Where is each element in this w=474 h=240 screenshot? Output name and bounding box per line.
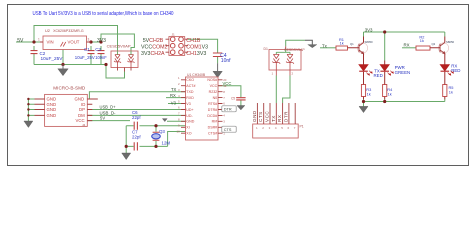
- svg-text:XO: XO: [186, 132, 191, 136]
- svg-text:ACT#: ACT#: [186, 84, 195, 88]
- svg-text:J1: J1: [172, 33, 176, 37]
- svg-text:P1: P1: [300, 124, 304, 128]
- svg-text:CTS: CTS: [258, 111, 263, 122]
- svg-text:TX: TX: [271, 115, 276, 122]
- svg-text:DTR#: DTR#: [208, 108, 217, 112]
- svg-text:GND: GND: [47, 107, 57, 112]
- svg-text:GND: GND: [186, 120, 194, 124]
- svg-text:RI#: RI#: [212, 120, 218, 124]
- svg-text:Q3: Q3: [159, 129, 165, 134]
- svg-text:C3: C3: [95, 47, 101, 52]
- svg-text:VCC: VCC: [223, 81, 232, 86]
- svg-text:USB_D+: USB_D+: [100, 104, 117, 109]
- svg-text:XI: XI: [186, 126, 189, 130]
- svg-text:10uF_25V: 10uF_25V: [41, 56, 63, 61]
- svg-text:DTR: DTR: [283, 111, 288, 122]
- svg-text:V3: V3: [186, 102, 190, 106]
- svg-text:RX: RX: [277, 115, 282, 122]
- svg-text:CESD5V0AP: CESD5V0AP: [107, 44, 132, 48]
- svg-text:Q2: Q2: [432, 42, 436, 46]
- svg-text:RTS#: RTS#: [208, 102, 217, 106]
- svg-text:C1: C1: [84, 47, 90, 52]
- svg-text:Q1: Q1: [350, 42, 354, 46]
- svg-text:RED: RED: [374, 73, 383, 78]
- svg-text:ID: ID: [81, 102, 85, 107]
- svg-text:3V3CH2A: 3V3CH2A: [141, 51, 165, 57]
- svg-text:3: 3: [88, 38, 90, 42]
- svg-text:5VCH2B: 5VCH2B: [143, 38, 164, 44]
- svg-text:GND: GND: [47, 102, 57, 107]
- svg-text:VOUT: VOUT: [68, 40, 80, 45]
- svg-text:5V: 5V: [100, 116, 105, 121]
- svg-text:VCC: VCC: [265, 111, 270, 122]
- svg-text:V3: V3: [171, 100, 177, 105]
- svg-text:100nF: 100nF: [95, 55, 107, 60]
- svg-text:GND: GND: [47, 113, 57, 118]
- svg-text:CH1B: CH1B: [186, 38, 201, 44]
- svg-text:3V3: 3V3: [365, 27, 373, 32]
- svg-text:1k: 1k: [449, 89, 453, 94]
- svg-text:CH13V3: CH13V3: [186, 51, 206, 57]
- svg-text:VCC: VCC: [210, 84, 218, 88]
- svg-text:3V3: 3V3: [97, 38, 106, 44]
- svg-text:U2: U2: [45, 28, 50, 33]
- svg-text:DCD#: DCD#: [207, 114, 217, 118]
- svg-text:CTS: CTS: [224, 128, 232, 132]
- svg-text:R232: R232: [209, 90, 218, 94]
- svg-text:1k: 1k: [420, 38, 424, 43]
- svg-text:GREEN: GREEN: [395, 70, 411, 75]
- svg-text:TXD: TXD: [186, 90, 194, 94]
- svg-text:5V: 5V: [17, 38, 24, 44]
- svg-text:UD-: UD-: [186, 114, 193, 118]
- svg-text:COM1V3: COM1V3: [186, 45, 208, 51]
- svg-text:RXD: RXD: [186, 96, 194, 100]
- svg-text:USB_D-: USB_D-: [100, 110, 117, 115]
- svg-text:J4: J4: [82, 123, 86, 127]
- svg-text:22pf: 22pf: [132, 115, 141, 120]
- svg-text:RX: RX: [170, 93, 176, 98]
- svg-text:C5: C5: [231, 96, 235, 100]
- svg-text:1: 1: [38, 38, 40, 42]
- svg-text:CKO: CKO: [186, 78, 194, 82]
- svg-text:10: 10: [177, 129, 181, 133]
- svg-text:1k: 1k: [388, 92, 392, 97]
- svg-text:CTS#: CTS#: [208, 132, 217, 136]
- svg-text:MICRO-B-SMD: MICRO-B-SMD: [53, 85, 85, 90]
- svg-text:10uF_25V: 10uF_25V: [75, 55, 95, 60]
- svg-text:GND: GND: [252, 110, 257, 122]
- svg-text:DTR: DTR: [224, 108, 232, 112]
- svg-text:CESDSV5AP: CESDSV5AP: [284, 48, 305, 52]
- svg-text:S8050: S8050: [446, 40, 455, 44]
- svg-text:USB To Uart 5V/3V3 is a USB to: USB To Uart 5V/3V3 is a USB to serial ad…: [33, 11, 174, 17]
- svg-text:VIN: VIN: [47, 40, 54, 45]
- svg-text:VCCCOM2: VCCCOM2: [141, 45, 168, 51]
- svg-text:1k: 1k: [367, 92, 371, 97]
- svg-text:RX: RX: [404, 42, 410, 47]
- svg-text:1k: 1k: [340, 41, 344, 46]
- svg-text:S8050: S8050: [365, 40, 374, 44]
- svg-text:22pf: 22pf: [132, 134, 141, 139]
- svg-text:U1 CH340B: U1 CH340B: [187, 73, 206, 77]
- svg-text:N0: N0: [213, 96, 218, 100]
- svg-text:DP: DP: [79, 107, 85, 112]
- svg-text:D1: D1: [264, 47, 268, 51]
- svg-text:12M: 12M: [162, 141, 171, 146]
- svg-text:XC6206P332MR-G: XC6206P332MR-G: [53, 28, 84, 33]
- svg-text:Tx: Tx: [322, 43, 328, 48]
- svg-text:10nf: 10nf: [221, 58, 231, 64]
- svg-text:NOS#: NOS#: [207, 78, 217, 82]
- svg-text:DSR#: DSR#: [208, 126, 218, 130]
- svg-text:UD+: UD+: [186, 108, 193, 112]
- svg-text:TX: TX: [171, 87, 177, 92]
